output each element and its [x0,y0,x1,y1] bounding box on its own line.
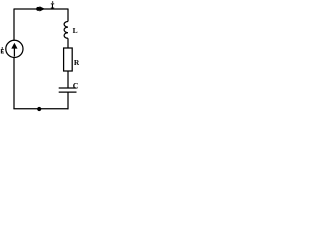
wire left upper [13,9,15,41]
resistor R [64,48,73,71]
svg-text:C: C [73,82,79,91]
label E [1,49,4,53]
dot of I [52,1,54,3]
svg-text:R: R [74,58,79,67]
inductor L [64,22,68,39]
current arrow I on top wire [36,6,45,11]
wire bottom [13,108,68,110]
wire right lower [67,92,69,109]
source arrow [11,43,17,57]
wire right mid2 [67,71,69,88]
capacitor C bottom plate [59,91,77,93]
label I [51,3,54,8]
wire left lower [13,57,15,109]
node dot bottom [37,107,41,111]
capacitor C top plate [59,87,77,89]
wire right upper [67,9,69,22]
dot of E [2,47,3,48]
wire right mid1 [67,38,69,48]
wire top [14,8,68,10]
source E circle [6,40,23,57]
svg-text:L: L [73,26,78,35]
